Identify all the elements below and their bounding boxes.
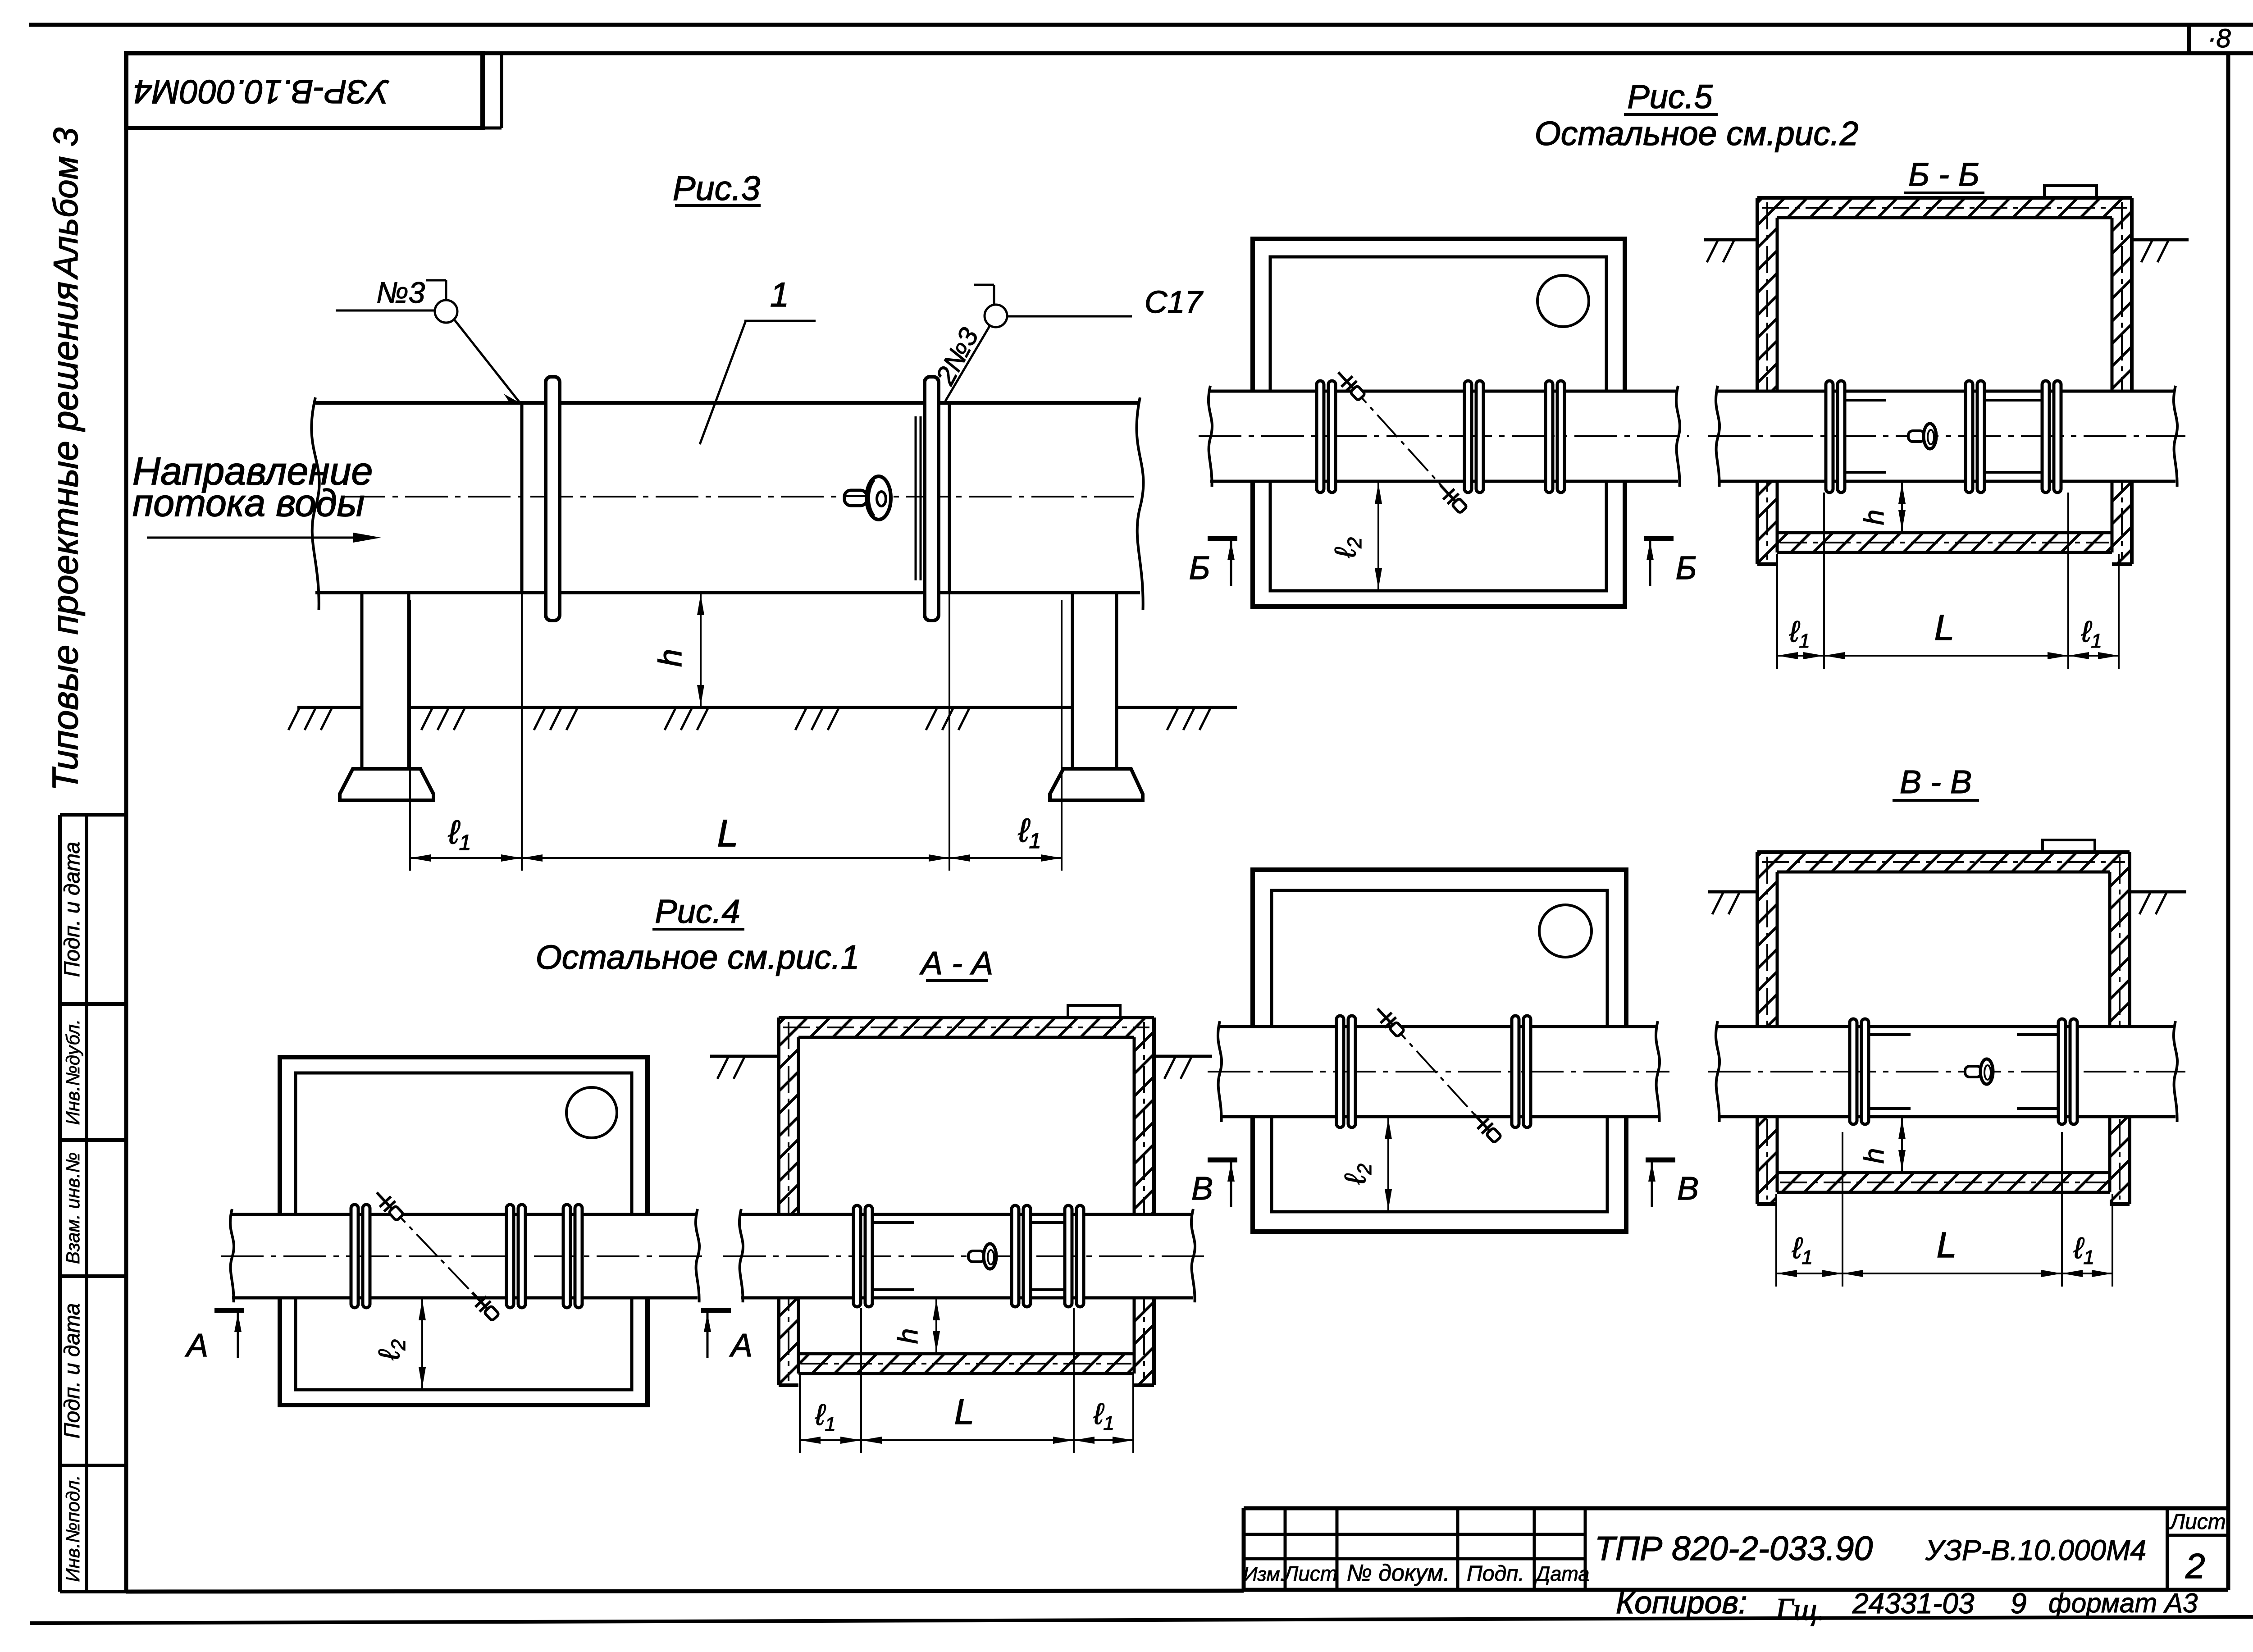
svg-text:С17: С17 bbox=[1145, 284, 1204, 319]
svg-text:Лист: Лист bbox=[2169, 1510, 2226, 1534]
Ris.5 plan pipe bottom bbox=[1210, 480, 1678, 483]
Ris.4 plan flange set 2 bbox=[506, 1205, 514, 1308]
Ris.4 plan pipe top bbox=[232, 1213, 698, 1216]
V-V pipe whiteout bbox=[1718, 1027, 2175, 1117]
B-B pipe whiteout bbox=[1718, 391, 2175, 481]
V plan pipe whiteout bbox=[1220, 1027, 1658, 1117]
A-A h dimension bbox=[935, 1298, 937, 1354]
B-B ground line right bbox=[2132, 238, 2189, 242]
Ris.3 right support foot bbox=[1050, 769, 1143, 800]
title block table bbox=[1244, 1506, 2228, 1511]
A-A spool inset lines bbox=[1031, 1221, 1065, 1224]
B-B pipe right break bbox=[2174, 386, 2177, 487]
B-B h dimension bbox=[1901, 481, 1903, 533]
svg-text:h: h bbox=[1859, 1148, 1890, 1164]
svg-text:Гщ.: Гщ. bbox=[1775, 1592, 1825, 1627]
V-V pipe right break bbox=[2174, 1021, 2177, 1122]
svg-text:А: А bbox=[729, 1328, 753, 1364]
Ris.4 plan flange set 1 bbox=[351, 1205, 358, 1308]
svg-text:Подп. и дата: Подп. и дата bbox=[60, 842, 84, 977]
V-V vent valve bbox=[1965, 1059, 1993, 1084]
sidebar column boxes bbox=[58, 815, 62, 1592]
svg-text:А: А bbox=[185, 1328, 208, 1364]
Ris.5 plan flange set 2 bbox=[1464, 381, 1472, 493]
V-V ground line right bbox=[2130, 890, 2186, 894]
A-A chamber bbox=[779, 1018, 1154, 1037]
list cell bbox=[2166, 1508, 2169, 1590]
svg-text:Инв.№дубл.: Инв.№дубл. bbox=[62, 1019, 83, 1125]
svg-text:В: В bbox=[1191, 1171, 1213, 1207]
sheet outer bottom border bbox=[30, 1617, 2253, 1623]
svg-text:h: h bbox=[893, 1328, 924, 1344]
A-A pipe bottom bbox=[741, 1296, 1193, 1300]
A-A flange set 1 bbox=[853, 1205, 861, 1307]
svg-text:В - В: В - В bbox=[1900, 764, 1972, 800]
Ris.4 A cut marker right bbox=[701, 1308, 731, 1313]
inner frame right line bbox=[2226, 53, 2230, 1590]
Ris.5 plan inner box bbox=[1270, 257, 1606, 591]
A-A pipe right break bbox=[1191, 1209, 1195, 1302]
B-B pipe bottom bbox=[1718, 480, 2175, 483]
svg-text:h: h bbox=[1859, 510, 1890, 525]
V-V centerline bbox=[1708, 1071, 2185, 1072]
svg-text:1: 1 bbox=[770, 276, 789, 314]
B-B dim ext lines bbox=[1776, 554, 1778, 669]
svg-text:ТПР 820-2-033.90: ТПР 820-2-033.90 bbox=[1595, 1529, 1873, 1567]
Ris.4 plan inner box bbox=[296, 1073, 632, 1390]
svg-text:Б: Б bbox=[1189, 550, 1210, 586]
Ris.4 plan flange set 3 bbox=[563, 1205, 570, 1308]
Ris.5 plan pipe right break bbox=[1676, 386, 1680, 487]
svg-text:Типовые проектные решения: Типовые проектные решения bbox=[45, 282, 85, 791]
V-V flange set 2 bbox=[2058, 1019, 2066, 1124]
B-B pipe top bbox=[1718, 390, 2175, 393]
Ris.4 plan pipe left break bbox=[230, 1209, 234, 1302]
svg-text:24331-03: 24331-03 bbox=[1852, 1587, 1975, 1620]
svg-text:Альбом 3: Альбом 3 bbox=[47, 128, 85, 280]
svg-text:УЗР-В.10.000М4: УЗР-В.10.000М4 bbox=[134, 73, 390, 110]
svg-text:УЗР-В.10.000М4: УЗР-В.10.000М4 bbox=[1925, 1534, 2146, 1566]
A-A vent valve bbox=[968, 1244, 996, 1269]
B-B flange set 2 bbox=[1966, 381, 1973, 493]
svg-text:В: В bbox=[1677, 1171, 1699, 1207]
V plan inner box bbox=[1272, 890, 1607, 1212]
B-B dimension line bbox=[1777, 655, 2119, 657]
A-A flange set 3 bbox=[1065, 1205, 1072, 1307]
Ris.4 plan pipe whiteout bbox=[232, 1214, 698, 1298]
svg-text:Дата: Дата bbox=[1534, 1562, 1590, 1585]
V-V flange set 1 bbox=[1850, 1019, 1857, 1124]
Ris.4 plan pipe bottom bbox=[232, 1296, 698, 1300]
Ris.3 h dimension bbox=[700, 593, 702, 707]
svg-text:Подп.: Подп. bbox=[1467, 1562, 1524, 1586]
B-B centerline bbox=[1708, 435, 2185, 437]
V-V ground line left bbox=[1708, 890, 1757, 894]
A-A dimension line bbox=[800, 1439, 1133, 1441]
Ris.5 B cut marker left bbox=[1208, 536, 1237, 541]
inner frame bottom line bbox=[126, 1591, 1244, 1592]
Ris.3 ground line bbox=[297, 706, 362, 709]
V-V dimension line bbox=[1776, 1273, 2112, 1274]
Ris.3 ground hatching bbox=[288, 708, 299, 730]
B-B chamber bbox=[1757, 198, 2132, 218]
V-V dim ext lines bbox=[1775, 1194, 1777, 1287]
svg-text:Лист: Лист bbox=[1283, 1562, 1337, 1585]
V-V chamber bbox=[1757, 852, 2130, 872]
A-A ground line left bbox=[710, 1055, 779, 1058]
svg-text:L: L bbox=[954, 1392, 975, 1432]
Ris.3 right flange bbox=[925, 377, 939, 621]
A-A flange set 2 bbox=[1012, 1205, 1019, 1307]
B-B ground line left bbox=[1704, 238, 1757, 242]
Ris.4 plan diagonal chain bbox=[385, 1201, 487, 1308]
inner frame top line bbox=[126, 51, 2253, 55]
V plan pipe bottom bbox=[1220, 1115, 1658, 1118]
Ris.3 left flange bbox=[546, 377, 560, 621]
svg-text:2: 2 bbox=[2185, 1546, 2205, 1586]
V plan pipe top bbox=[1220, 1025, 1658, 1028]
Ris.3 pipe bottom line bbox=[315, 591, 1140, 594]
svg-text:Б: Б bbox=[1676, 550, 1697, 586]
stamp box top-left bbox=[126, 53, 483, 128]
top band cell for sheet number bbox=[2187, 25, 2191, 53]
V plan pipe left break bbox=[1218, 1021, 1222, 1122]
svg-text:·8: ·8 bbox=[2207, 24, 2231, 53]
Ris.5 plan pipe top bbox=[1210, 390, 1678, 393]
svg-text:Б - Б: Б - Б bbox=[1908, 157, 1979, 193]
V-V pipe left break bbox=[1716, 1021, 1719, 1122]
svg-text:L: L bbox=[1934, 607, 1955, 648]
A-A pipe left break bbox=[739, 1209, 743, 1302]
Ris.3 vent valve bbox=[844, 476, 891, 520]
Ris.3 pipe left break bbox=[311, 397, 319, 610]
Ris.5 plan diagonal chain bbox=[1346, 381, 1455, 501]
Ris.4 plan e2 dimension bbox=[421, 1298, 423, 1390]
svg-text:Подп. и дата: Подп. и дата bbox=[60, 1303, 84, 1439]
svg-text:№ докум.: № докум. bbox=[1346, 1560, 1450, 1586]
svg-text:Рис.5: Рис.5 bbox=[1627, 78, 1713, 115]
V plan manhole circle bbox=[1539, 905, 1592, 957]
Ris.5 plan centerline bbox=[1199, 435, 1689, 437]
Ris.5 plan flange set 3 bbox=[1546, 381, 1553, 493]
svg-text:потока воды: потока воды bbox=[132, 482, 365, 524]
svg-text:Изм.: Изм. bbox=[1243, 1563, 1286, 1585]
svg-text:Взам. инв.№: Взам. инв.№ bbox=[62, 1152, 83, 1264]
Ris.4 plan manhole circle bbox=[566, 1087, 617, 1138]
V cut marker left bbox=[1208, 1158, 1237, 1163]
Ris.5 plan e2 dimension bbox=[1377, 481, 1379, 591]
Ris.3 right flange spool end lines bbox=[915, 416, 917, 580]
B-B spool inset lines bbox=[1984, 399, 2042, 402]
A-A pipe whiteout bbox=[741, 1214, 1193, 1298]
svg-text:Копиров:: Копиров: bbox=[1616, 1585, 1747, 1620]
V-V pipe top bbox=[1718, 1025, 2175, 1028]
V plan flange set 1 bbox=[1336, 1016, 1344, 1127]
V plan e2 dimension bbox=[1387, 1117, 1389, 1212]
B-B flange set 3 bbox=[2042, 381, 2049, 493]
Ris.3 right joint line bbox=[948, 403, 951, 593]
B-B flange hub lines bbox=[1845, 399, 1886, 402]
sheet outer top border bbox=[29, 23, 2253, 27]
svg-text:L: L bbox=[717, 812, 739, 854]
Ris.3 right support column bbox=[1071, 593, 1074, 769]
A-A flange hub lines bbox=[872, 1221, 914, 1224]
V plan flange set 2 bbox=[1512, 1016, 1519, 1127]
Ris.3 dimension extension lines bbox=[409, 600, 411, 871]
Ris.4 plan outer box bbox=[280, 1057, 648, 1405]
Ris.5 plan pipe left break bbox=[1209, 386, 1212, 487]
V cut marker right bbox=[1646, 1158, 1675, 1163]
Ris.4 plan pipe right break bbox=[696, 1209, 699, 1302]
V-V pipe bottom bbox=[1718, 1115, 2175, 1118]
B-B vent valve bbox=[1908, 424, 1936, 449]
Ris.3 left support column bbox=[360, 593, 364, 769]
Ris.5 B cut marker right bbox=[1644, 536, 1674, 541]
V plan pipe right break bbox=[1656, 1021, 1660, 1122]
svg-text:А - А: А - А bbox=[919, 945, 993, 981]
svg-text:Рис.3: Рис.3 bbox=[673, 169, 760, 208]
Ris.3 pipe right break bbox=[1136, 397, 1143, 610]
A-A centerline bbox=[723, 1255, 1204, 1257]
V plan outer box bbox=[1253, 870, 1626, 1232]
Ris.5 plan pipe whiteout bbox=[1210, 391, 1678, 481]
svg-text:L: L bbox=[1937, 1225, 1957, 1265]
Ris.3 left joint line bbox=[520, 403, 524, 593]
V-V h dimension bbox=[1901, 1117, 1903, 1173]
inner frame left line bbox=[124, 53, 128, 1592]
svg-text:Остальное см.рис.1: Остальное см.рис.1 bbox=[536, 938, 860, 976]
Ris.5 plan outer box bbox=[1253, 239, 1625, 607]
Ris.5 plan manhole circle bbox=[1537, 275, 1589, 327]
svg-text:№3: №3 bbox=[376, 276, 425, 309]
svg-text:Инв.№подл.: Инв.№подл. bbox=[62, 1475, 83, 1582]
Ris.4 A cut marker left bbox=[214, 1308, 244, 1313]
B-B flange set 1 bbox=[1826, 381, 1833, 493]
B-B pipe left break bbox=[1716, 386, 1719, 487]
Ris.5 plan flange set 1 bbox=[1317, 381, 1324, 493]
svg-text:Остальное см.рис.2: Остальное см.рис.2 bbox=[1535, 114, 1859, 152]
Ris.3 centerline bbox=[342, 496, 1134, 497]
Ris.3 pipe top line bbox=[315, 401, 1140, 405]
Ris.4 plan centerline bbox=[221, 1255, 708, 1257]
V plan diagonal chain bbox=[1386, 1017, 1489, 1131]
svg-text:формат А3: формат А3 bbox=[2048, 1588, 2198, 1618]
A-A dim ext lines bbox=[799, 1375, 801, 1453]
Ris.3 left support foot bbox=[340, 769, 433, 800]
svg-text:h: h bbox=[652, 649, 689, 667]
flow arrow bbox=[147, 537, 372, 539]
svg-text:Рис.4: Рис.4 bbox=[655, 893, 740, 930]
A-A pipe top bbox=[741, 1213, 1193, 1216]
Ris.3 dimension line bbox=[410, 857, 1062, 859]
V plan centerline bbox=[1208, 1071, 1669, 1072]
svg-text:9: 9 bbox=[2011, 1587, 2027, 1620]
A-A ground line right bbox=[1154, 1055, 1212, 1058]
V-V flange hub lines bbox=[1869, 1033, 1911, 1036]
